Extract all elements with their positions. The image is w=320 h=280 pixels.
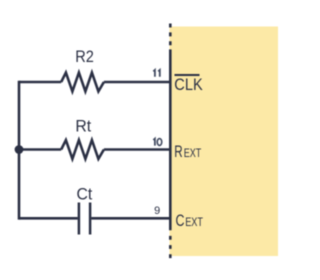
wire: bottom row left segment bbox=[19, 217, 78, 220]
wire: top row right segment into pin 11 bbox=[104, 81, 170, 84]
svg-text:Rt: Rt bbox=[75, 117, 91, 136]
IC body (yellow block) bbox=[170, 27, 279, 257]
IC left edge (solid) bbox=[169, 49, 172, 230]
pin number 10 bbox=[153, 139, 161, 146]
CLK overline bbox=[175, 74, 200, 76]
svg-text:R: R bbox=[174, 142, 182, 161]
svg-text:Ct: Ct bbox=[77, 185, 93, 204]
IC left edge dashed continuation (top) bbox=[169, 24, 172, 48]
wire: top row (pin 11 to left rail) bbox=[19, 81, 61, 84]
svg-text:C: C bbox=[176, 211, 185, 230]
IC left edge dashed continuation (bottom) bbox=[169, 236, 172, 258]
wire: bottom row right segment into pin 9 bbox=[91, 217, 170, 220]
resistor R2 (zigzag) bbox=[61, 73, 104, 92]
svg-text:EXT: EXT bbox=[185, 215, 203, 229]
resistor Rt (zigzag) bbox=[61, 140, 104, 159]
pin number 11 bbox=[153, 70, 160, 77]
svg-text:EXT: EXT bbox=[184, 146, 202, 160]
capacitor Ct right plate bbox=[89, 203, 92, 235]
capacitor Ct left plate bbox=[78, 203, 81, 235]
svg-text:9: 9 bbox=[154, 205, 160, 217]
wire: left vertical rail bbox=[18, 81, 21, 220]
svg-text:R2: R2 bbox=[75, 47, 94, 66]
wire: middle row left segment bbox=[19, 148, 61, 151]
wire: middle row right segment into pin 10 bbox=[104, 148, 170, 151]
svg-text:CLK: CLK bbox=[174, 75, 203, 94]
junction node (left rail / middle row) bbox=[15, 145, 24, 154]
